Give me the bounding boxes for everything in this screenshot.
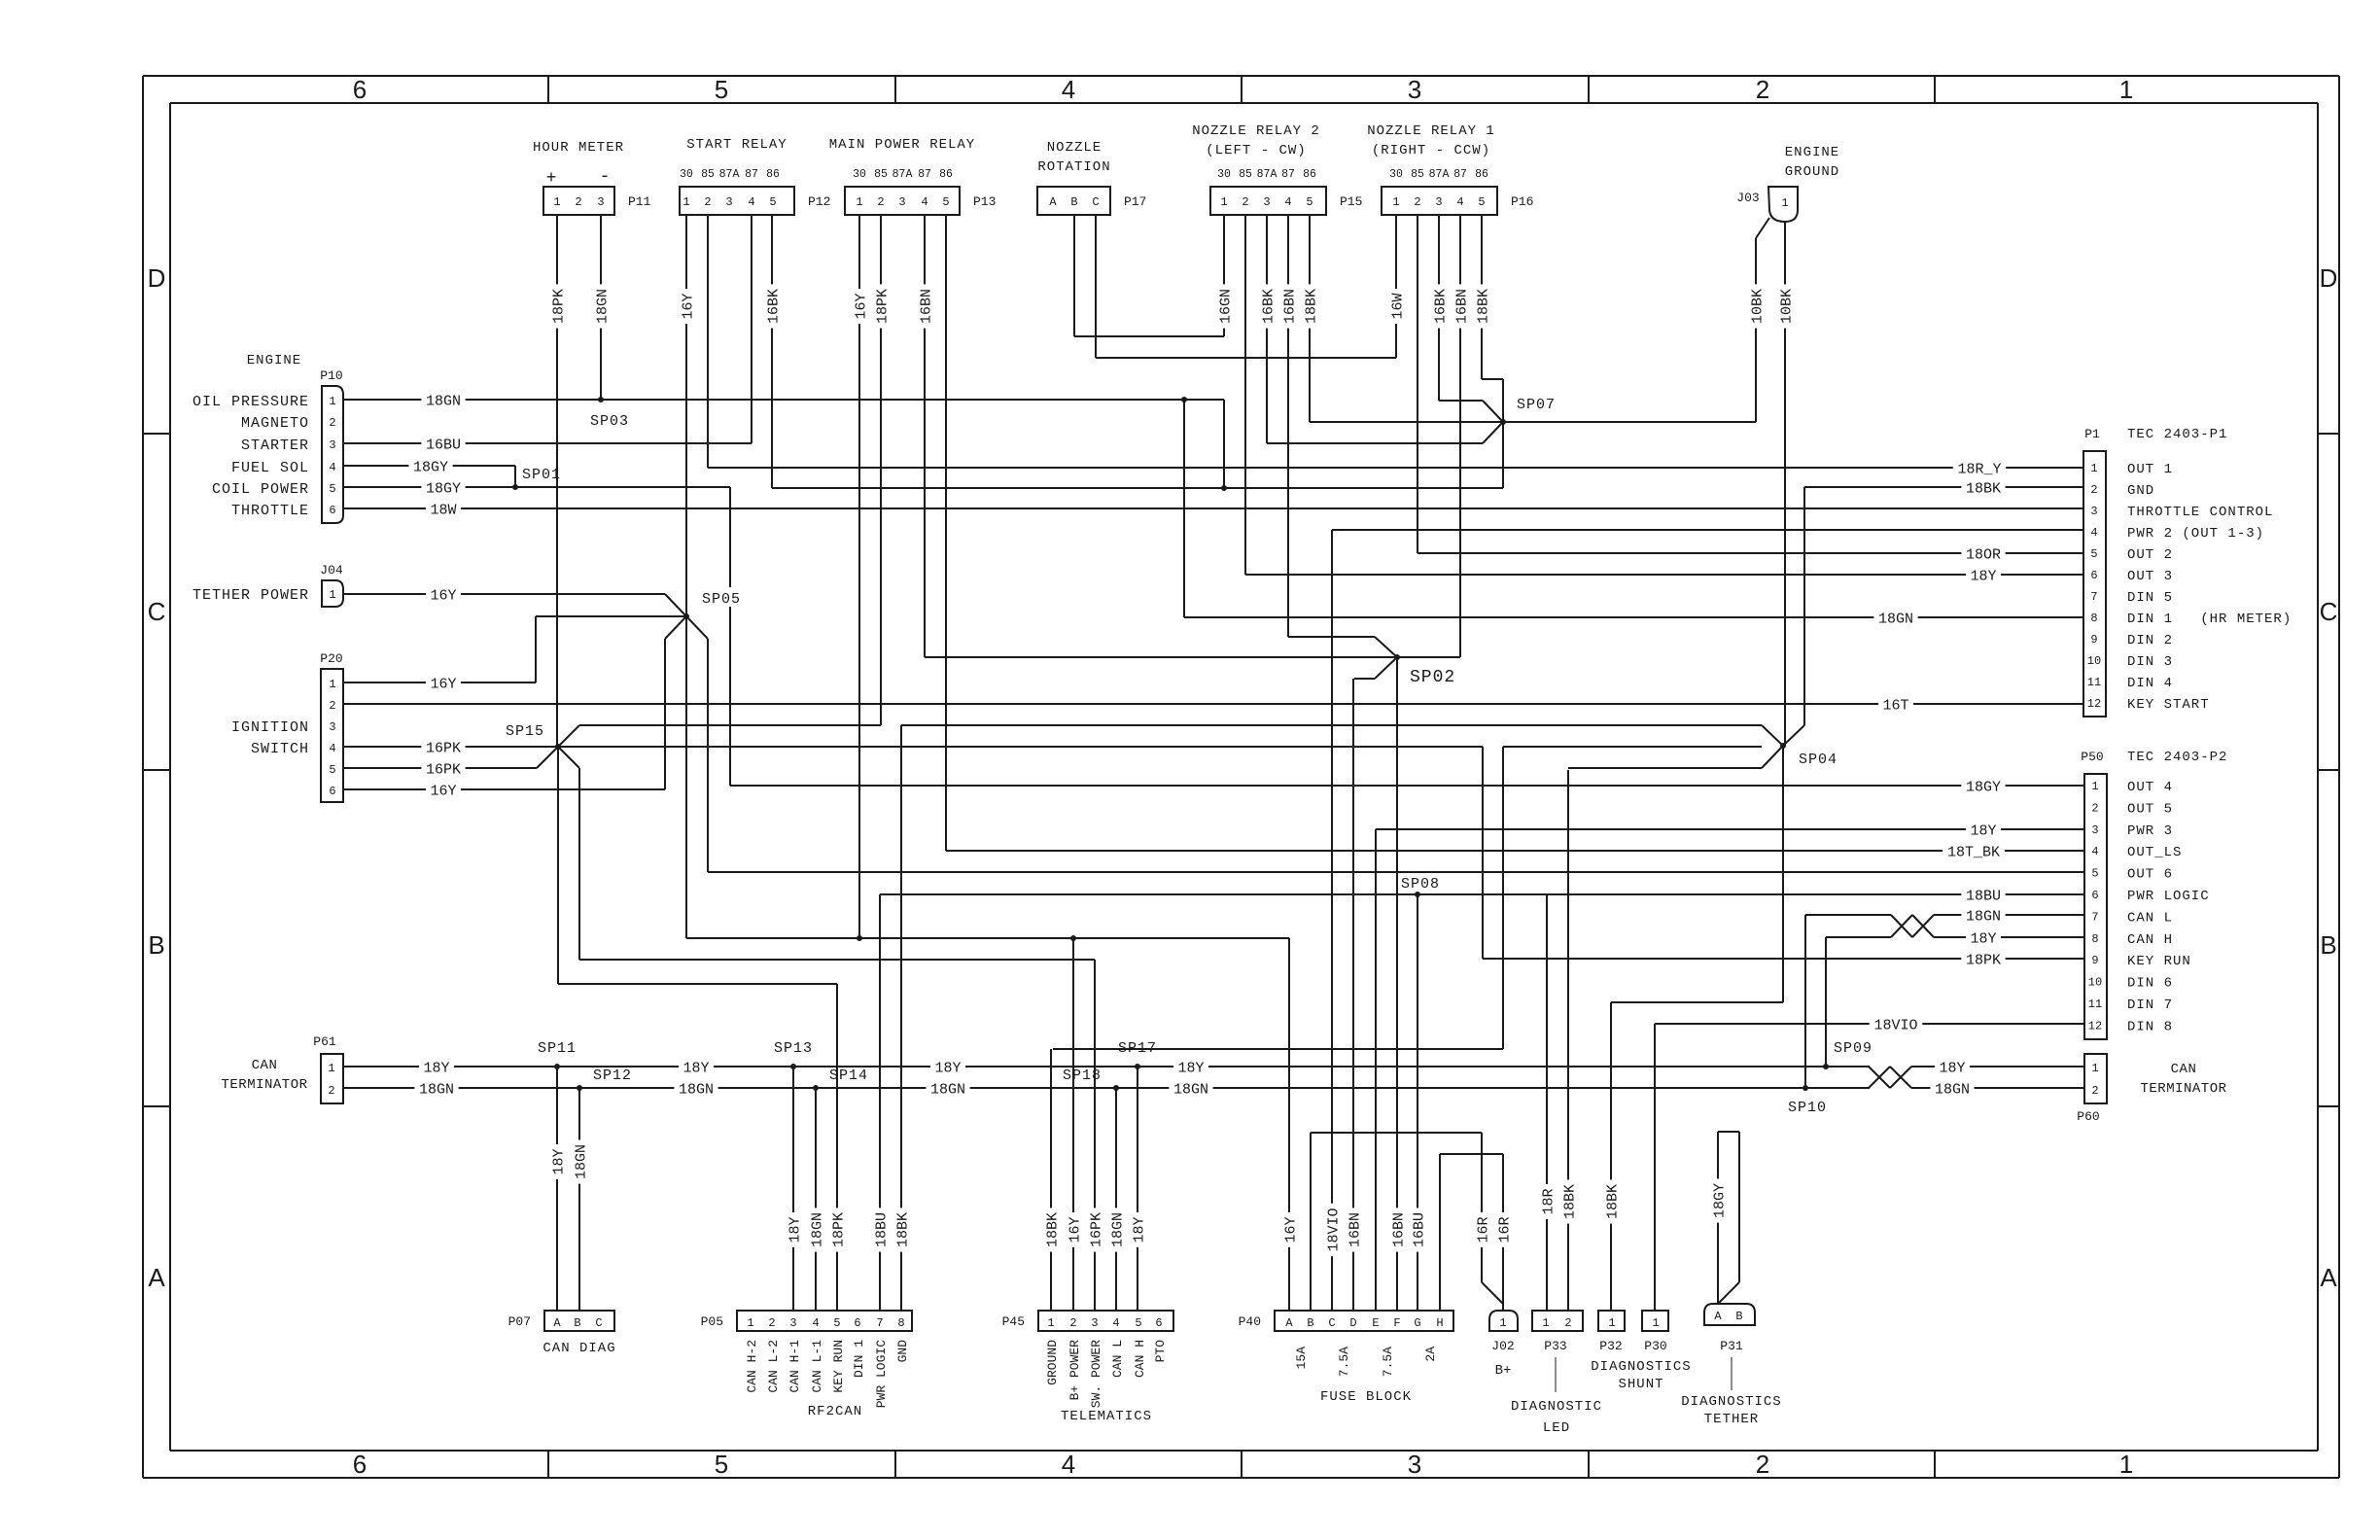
svg-text:B: B	[148, 930, 164, 960]
svg-text:1: 1	[682, 195, 689, 209]
svg-text:1: 1	[328, 1062, 334, 1075]
svg-text:87: 87	[918, 168, 931, 181]
svg-text:87: 87	[745, 168, 758, 181]
svg-text:1: 1	[2091, 1062, 2098, 1075]
wire J03 left 10BK	[1756, 218, 1769, 238]
svg-text:5: 5	[769, 195, 776, 209]
svg-text:4: 4	[329, 742, 335, 755]
svg-text:SWITCH: SWITCH	[251, 741, 309, 757]
svg-text:KEY RUN: KEY RUN	[831, 1340, 846, 1393]
svg-text:B: B	[1735, 1310, 1742, 1323]
svg-text:3: 3	[1435, 195, 1442, 209]
splice SP09	[1823, 1064, 1829, 1069]
svg-text:1: 1	[329, 395, 335, 408]
svg-text:5: 5	[715, 75, 728, 104]
svg-text:4: 4	[1062, 1450, 1075, 1479]
wire P17-C	[1095, 215, 1097, 358]
svg-text:DIN 1 (HR METER): DIN 1 (HR METER)	[2127, 612, 2292, 627]
svg-text:CAN L: CAN L	[2127, 910, 2173, 926]
svg-text:16BK: 16BK	[1432, 289, 1449, 324]
svg-text:5: 5	[942, 195, 949, 209]
splice SP18	[1113, 1085, 1119, 1091]
svg-text:DIN 5: DIN 5	[2127, 590, 2173, 606]
svg-text:SP02: SP02	[1410, 668, 1455, 687]
svg-text:1: 1	[1608, 1316, 1615, 1330]
svg-text:12: 12	[2088, 1019, 2102, 1032]
svg-text:18W: 18W	[430, 502, 456, 518]
wire KEY RUN RF2CAN row	[558, 983, 837, 985]
svg-text:16R: 16R	[1475, 1216, 1491, 1242]
svg-text:+: +	[546, 169, 557, 189]
svg-text:SP08: SP08	[1401, 876, 1440, 892]
svg-text:P45: P45	[1002, 1314, 1025, 1329]
svg-text:OUT 6: OUT 6	[2127, 867, 2173, 883]
svg-text:B: B	[2320, 930, 2336, 960]
svg-text:OUT 5: OUT 5	[2127, 801, 2173, 817]
svg-text:3: 3	[1408, 1450, 1421, 1479]
svg-text:C: C	[1328, 1316, 1335, 1330]
svg-text:PWR LOGIC: PWR LOGIC	[2127, 889, 2210, 904]
wire P45-3 16PK	[1094, 960, 1096, 1311]
svg-text:P16: P16	[1511, 194, 1533, 209]
svg-text:P11: P11	[628, 194, 651, 209]
svg-text:DIN 4: DIN 4	[2127, 676, 2173, 691]
svg-text:PTO: PTO	[1153, 1340, 1168, 1363]
svg-text:J03: J03	[1736, 191, 1759, 205]
svg-text:16Y: 16Y	[1067, 1216, 1083, 1242]
svg-text:10: 10	[2087, 654, 2101, 668]
svg-text:8: 8	[2091, 932, 2098, 946]
wire P15-3 16BK	[1266, 215, 1268, 443]
svg-text:DIN 8: DIN 8	[2127, 1019, 2173, 1034]
svg-text:18OR: 18OR	[1966, 546, 2001, 563]
wire P15-5 18BK	[1309, 215, 1311, 422]
svg-text:CAN: CAN	[252, 1058, 278, 1073]
wire P40-H	[1439, 1154, 1441, 1311]
svg-text:C: C	[1092, 195, 1099, 209]
svg-text:TELEMATICS: TELEMATICS	[1061, 1409, 1152, 1424]
svg-text:18VIO: 18VIO	[1325, 1207, 1342, 1251]
connector P61 CAN TERMINATOR	[321, 1054, 343, 1103]
svg-text:3: 3	[725, 195, 732, 209]
wire B+ row 1165	[1311, 1132, 1482, 1134]
svg-text:4: 4	[1112, 1316, 1119, 1330]
svg-text:D: D	[148, 263, 166, 293]
svg-text:2: 2	[768, 1316, 775, 1330]
splice SP14	[813, 1085, 819, 1091]
svg-text:18Y: 18Y	[1131, 1216, 1147, 1242]
wire GROUND 18BK row	[1053, 1048, 1503, 1050]
svg-text:SP07: SP07	[1517, 397, 1556, 413]
svg-text:6: 6	[2091, 889, 2098, 902]
svg-text:18PK: 18PK	[550, 289, 567, 324]
wire P10-3 16BU row	[343, 442, 752, 444]
svg-text:5: 5	[715, 1450, 728, 1479]
svg-text:30: 30	[853, 168, 866, 181]
wire GND 18BK row	[1804, 486, 2083, 488]
wire P16-2	[1417, 215, 1418, 553]
svg-text:A: A	[553, 1316, 561, 1330]
svg-text:4: 4	[2091, 845, 2098, 858]
wire P31 loop 18GY	[1717, 1132, 1719, 1304]
svg-text:P07: P07	[508, 1314, 531, 1329]
svg-text:5: 5	[1135, 1316, 1141, 1330]
wire SP11 18Y drop label	[548, 1144, 567, 1179]
svg-text:SP17: SP17	[1118, 1040, 1157, 1057]
svg-text:16W: 16W	[1389, 293, 1406, 319]
svg-text:GROUND: GROUND	[1785, 164, 1839, 180]
svg-text:30: 30	[680, 168, 693, 181]
svg-text:OIL PRESSURE: OIL PRESSURE	[192, 394, 309, 410]
wire OUT1 18R_Y row	[708, 467, 2083, 469]
svg-text:A: A	[1049, 195, 1057, 209]
svg-text:16Y: 16Y	[680, 293, 696, 319]
svg-text:16BN: 16BN	[1347, 1212, 1363, 1247]
connector P07 CAN DIAG	[544, 1311, 614, 1331]
svg-text:SP14: SP14	[829, 1067, 868, 1084]
svg-text:18BK: 18BK	[1561, 1184, 1578, 1219]
wire P40-B	[1310, 1133, 1312, 1311]
svg-text:SP09: SP09	[1834, 1040, 1872, 1057]
svg-text:P1: P1	[2084, 427, 2100, 441]
wire P15-4 16BN	[1287, 215, 1289, 637]
wire GND row 434 to SP07	[1310, 421, 1756, 423]
svg-text:GND: GND	[895, 1340, 910, 1363]
svg-text:16PK: 16PK	[426, 761, 461, 778]
svg-text:6: 6	[1155, 1316, 1162, 1330]
connector P60 CAN TERMINATOR	[2084, 1054, 2107, 1103]
wire P13-2 18PK	[880, 215, 882, 725]
splice SP01	[514, 466, 516, 487]
svg-text:18Y: 18Y	[550, 1148, 567, 1174]
svg-text:TEC 2403-P2: TEC 2403-P2	[2127, 750, 2227, 765]
svg-text:6: 6	[854, 1316, 860, 1330]
svg-text:P13: P13	[973, 194, 996, 209]
svg-text:6: 6	[329, 504, 335, 517]
svg-text:1: 1	[1392, 195, 1399, 209]
wire P05-7 18BU	[879, 894, 881, 1311]
svg-text:P60: P60	[2077, 1109, 2099, 1124]
svg-text:C: C	[148, 597, 166, 626]
svg-text:1: 1	[329, 678, 335, 691]
svg-text:7.5A: 7.5A	[1337, 1347, 1351, 1377]
splice SP02	[1394, 654, 1400, 660]
svg-text:86: 86	[1303, 168, 1316, 181]
svg-text:TEC 2403-P1: TEC 2403-P1	[2127, 427, 2227, 442]
svg-text:18Y: 18Y	[934, 1060, 961, 1076]
wire B+ row 1187	[1440, 1153, 1503, 1155]
svg-text:CAN L-1: CAN L-1	[810, 1340, 824, 1393]
svg-text:B: B	[1070, 195, 1077, 209]
svg-text:18BK: 18BK	[1475, 289, 1491, 324]
splice SP08	[1415, 892, 1420, 897]
svg-text:18GN: 18GN	[426, 393, 461, 409]
connector P11 HOUR METER	[543, 187, 614, 215]
svg-text:8: 8	[897, 1316, 904, 1330]
svg-text:18R_Y: 18R_Y	[1957, 461, 2001, 477]
svg-text:FUEL SOL: FUEL SOL	[231, 460, 309, 476]
wire 16GN row 346	[1074, 335, 1224, 337]
svg-text:SP05: SP05	[702, 591, 741, 608]
connector P31 DIAGNOSTICS TETHER	[1704, 1304, 1755, 1325]
svg-text:16BU: 16BU	[426, 437, 461, 453]
wire J02 16R left	[1481, 1133, 1483, 1282]
svg-text:2: 2	[1069, 1316, 1076, 1330]
svg-text:30: 30	[1389, 168, 1403, 181]
svg-text:16PK: 16PK	[1088, 1212, 1104, 1247]
svg-text:TERMINATOR: TERMINATOR	[221, 1077, 307, 1093]
svg-text:9: 9	[2091, 954, 2098, 967]
svg-text:18GN: 18GN	[573, 1144, 589, 1179]
svg-text:2: 2	[704, 195, 711, 209]
wire P15-1 16GN	[1223, 215, 1225, 336]
connector P05 RF2CAN	[737, 1311, 912, 1331]
svg-text:SHUNT: SHUNT	[1618, 1377, 1663, 1392]
svg-text:START RELAY: START RELAY	[686, 137, 787, 153]
wire P15-2	[1244, 215, 1246, 575]
wire P45-2 16Y	[1072, 938, 1074, 1311]
svg-text:P32: P32	[1599, 1339, 1622, 1353]
svg-text:87A: 87A	[892, 168, 913, 181]
wire 16W row 368	[1096, 357, 1396, 359]
svg-text:7.5A: 7.5A	[1381, 1347, 1395, 1377]
wire P10-4 18GY row	[343, 465, 515, 467]
svg-text:RF2CAN: RF2CAN	[808, 1404, 862, 1419]
svg-text:5: 5	[2091, 867, 2098, 881]
svg-text:CAN DIAG: CAN DIAG	[542, 1341, 615, 1356]
svg-text:FUSE BLOCK: FUSE BLOCK	[1320, 1389, 1412, 1405]
svg-text:CAN H-2: CAN H-2	[745, 1340, 759, 1393]
wire P13-4 16BN	[924, 215, 926, 657]
svg-text:18BK: 18BK	[1604, 1184, 1621, 1219]
svg-text:11: 11	[2087, 676, 2101, 689]
svg-text:18Y: 18Y	[682, 1060, 709, 1076]
svg-text:ENGINE: ENGINE	[1785, 145, 1839, 160]
svg-text:85: 85	[874, 168, 888, 181]
svg-text:D: D	[1349, 1316, 1356, 1330]
svg-text:11: 11	[2088, 997, 2102, 1011]
svg-text:3: 3	[789, 1316, 796, 1330]
svg-text:DIAGNOSTICS: DIAGNOSTICS	[1681, 1394, 1781, 1410]
wire P12-1 16Y	[685, 215, 687, 616]
svg-text:10BK: 10BK	[1749, 289, 1766, 324]
svg-text:5: 5	[2090, 547, 2097, 561]
svg-text:5: 5	[1306, 195, 1312, 209]
svg-text:16BN: 16BN	[1281, 289, 1298, 324]
svg-text:10: 10	[2088, 976, 2102, 990]
svg-text:B: B	[574, 1316, 580, 1330]
svg-text:DIN 6: DIN 6	[2127, 976, 2173, 992]
svg-text:(RIGHT - CCW): (RIGHT - CCW)	[1372, 143, 1490, 158]
svg-text:18Y: 18Y	[787, 1216, 803, 1242]
wire P17-B	[1073, 215, 1075, 336]
svg-text:D: D	[2320, 263, 2338, 293]
svg-text:SP04: SP04	[1799, 752, 1837, 768]
wire P12-5 16BK	[771, 215, 773, 488]
svg-text:18Y: 18Y	[423, 1060, 449, 1076]
splice SP07	[1500, 419, 1506, 425]
svg-text:J04: J04	[320, 563, 343, 577]
svg-text:OUT 2: OUT 2	[2127, 547, 2173, 563]
wire P32 18BK	[1610, 1002, 1612, 1311]
svg-text:H: H	[1436, 1316, 1443, 1330]
svg-text:18Y: 18Y	[1970, 822, 1996, 839]
svg-text:MAIN POWER RELAY: MAIN POWER RELAY	[829, 137, 975, 153]
svg-text:2: 2	[329, 416, 335, 430]
svg-text:16Y: 16Y	[430, 587, 456, 604]
svg-text:4: 4	[1284, 195, 1291, 209]
wire CAN 18GN row	[342, 1087, 1870, 1089]
svg-text:18PK: 18PK	[830, 1212, 847, 1247]
svg-text:87A: 87A	[1257, 168, 1277, 181]
svg-text:P12: P12	[808, 194, 830, 209]
svg-text:4: 4	[812, 1316, 819, 1330]
svg-text:16BN: 16BN	[1390, 1212, 1407, 1247]
svg-text:PWR 2 (OUT 1-3): PWR 2 (OUT 1-3)	[2127, 526, 2264, 542]
svg-text:J02: J02	[1491, 1339, 1514, 1353]
connector P12 START RELAY	[680, 187, 794, 215]
svg-text:GROUND: GROUND	[1045, 1340, 1060, 1385]
svg-text:GND: GND	[2127, 483, 2154, 499]
connector P20 IGNITION SWITCH	[321, 669, 343, 802]
svg-text:F: F	[1393, 1316, 1400, 1330]
svg-text:-: -	[600, 167, 611, 187]
svg-text:18GN: 18GN	[809, 1212, 825, 1247]
wire SP15 to P13-2 row	[579, 724, 881, 726]
svg-text:2: 2	[1414, 195, 1420, 209]
svg-text:SP10: SP10	[1788, 1100, 1827, 1116]
svg-text:LED: LED	[1543, 1420, 1570, 1436]
svg-text:TETHER POWER: TETHER POWER	[192, 587, 309, 604]
svg-text:16BK: 16BK	[1260, 289, 1277, 324]
splice SP04	[1780, 743, 1786, 749]
svg-text:2: 2	[2091, 1084, 2098, 1098]
svg-text:16T: 16T	[1882, 697, 1908, 714]
wire P20-6 16Y	[343, 788, 665, 790]
svg-text:CAN H: CAN H	[2127, 932, 2173, 948]
svg-text:P50: P50	[2081, 750, 2103, 764]
svg-text:3: 3	[1408, 75, 1421, 104]
wire P30	[1654, 1024, 1656, 1311]
svg-text:G: G	[1414, 1316, 1420, 1330]
svg-text:18BU: 18BU	[1966, 888, 2001, 904]
svg-text:1: 1	[856, 195, 862, 209]
svg-text:COIL POWER: COIL POWER	[212, 481, 309, 498]
splice SP03	[598, 397, 604, 402]
wire P20-4 16PK row	[343, 746, 1483, 748]
svg-text:86: 86	[766, 168, 780, 181]
svg-text:18GN: 18GN	[1878, 611, 1913, 627]
border frame with zone coordinates	[143, 75, 2339, 77]
svg-text:A: A	[1285, 1316, 1293, 1330]
svg-text:18BK: 18BK	[894, 1212, 911, 1247]
svg-text:18Y: 18Y	[1939, 1060, 1965, 1076]
svg-text:18GY: 18GY	[413, 459, 448, 475]
splice SP15	[555, 744, 561, 750]
svg-text:16BN: 16BN	[1453, 289, 1470, 324]
svg-text:18BK: 18BK	[1966, 480, 2001, 497]
wire P13-1 16Y	[858, 215, 860, 938]
wire P10-6 18W row	[343, 507, 2083, 509]
wire OUT_LS 18T_BK row	[946, 850, 2084, 852]
svg-text:3: 3	[2090, 505, 2097, 518]
wire J02 16R right	[1502, 1154, 1504, 1311]
svg-text:SP01: SP01	[522, 467, 561, 483]
svg-text:STARTER: STARTER	[241, 437, 309, 454]
svg-text:18PK: 18PK	[1966, 952, 2001, 968]
svg-text:THROTTLE CONTROL: THROTTLE CONTROL	[2127, 505, 2273, 520]
svg-text:3: 3	[597, 195, 604, 209]
wire SP05 down 16Y	[685, 616, 687, 938]
svg-text:3: 3	[1263, 195, 1270, 209]
svg-text:CAN L: CAN L	[1110, 1340, 1125, 1378]
svg-text:4: 4	[329, 461, 335, 474]
svg-text:18GN: 18GN	[1966, 908, 2001, 925]
svg-text:B: B	[1307, 1316, 1313, 1330]
svg-text:NOZZLE: NOZZLE	[1047, 140, 1102, 156]
svg-text:2: 2	[2091, 801, 2098, 815]
svg-text:HOUR METER: HOUR METER	[533, 140, 624, 156]
svg-text:THROTTLE: THROTTLE	[231, 503, 309, 519]
wire P11-3 18GN	[600, 215, 602, 400]
svg-text:PWR 3: PWR 3	[2127, 823, 2173, 839]
svg-text:18Y: 18Y	[1970, 930, 1996, 947]
svg-text:DIN 2: DIN 2	[2127, 633, 2173, 648]
svg-text:7: 7	[2090, 590, 2097, 604]
svg-text:2: 2	[328, 1084, 334, 1098]
svg-text:DIAGNOSTICS: DIAGNOSTICS	[1591, 1359, 1691, 1375]
svg-text:TETHER: TETHER	[1704, 1412, 1759, 1427]
svg-text:3: 3	[1091, 1316, 1098, 1330]
svg-text:P20: P20	[320, 651, 342, 666]
svg-text:6: 6	[353, 75, 367, 104]
svg-text:18GN: 18GN	[1173, 1081, 1208, 1098]
svg-text:7: 7	[2091, 910, 2098, 924]
connector P30	[1642, 1311, 1668, 1331]
wire PWR3 18Y row	[1376, 828, 2084, 830]
splice SP12	[577, 1085, 582, 1091]
svg-text:16BK: 16BK	[765, 289, 782, 324]
svg-text:18GN: 18GN	[594, 289, 611, 324]
svg-text:SP12: SP12	[593, 1067, 632, 1084]
svg-text:OUT 3: OUT 3	[2127, 569, 2173, 584]
svg-text:CAN H-1: CAN H-1	[787, 1340, 802, 1393]
wire SP15 down 18Y	[557, 747, 559, 984]
svg-text:18Y: 18Y	[1970, 568, 1996, 584]
svg-text:P10: P10	[320, 368, 342, 383]
wire J04 16Y	[343, 593, 665, 595]
svg-text:2: 2	[1756, 75, 1769, 104]
wire PWR2 row	[1332, 529, 2083, 531]
svg-text:KEY START: KEY START	[2127, 697, 2210, 713]
svg-text:18T_BK: 18T_BK	[1947, 844, 2000, 860]
svg-text:P61: P61	[313, 1034, 336, 1049]
connector P13 MAIN POWER RELAY	[845, 187, 960, 215]
svg-text:B+: B+	[1495, 1363, 1512, 1379]
svg-text:5: 5	[1478, 195, 1485, 209]
svg-text:IGNITION: IGNITION	[231, 719, 309, 736]
svg-text:C: C	[595, 1316, 602, 1330]
svg-text:SP03: SP03	[590, 413, 629, 430]
svg-text:P31: P31	[1720, 1339, 1743, 1353]
svg-text:PWR LOGIC: PWR LOGIC	[874, 1340, 889, 1408]
svg-text:18BK: 18BK	[1303, 289, 1319, 324]
wire P05-8 18BK	[900, 725, 902, 1311]
svg-text:16BN: 16BN	[918, 289, 934, 324]
wire CAN 18Y row	[342, 1066, 1870, 1067]
svg-text:2: 2	[329, 699, 335, 713]
svg-text:4: 4	[2090, 526, 2097, 540]
